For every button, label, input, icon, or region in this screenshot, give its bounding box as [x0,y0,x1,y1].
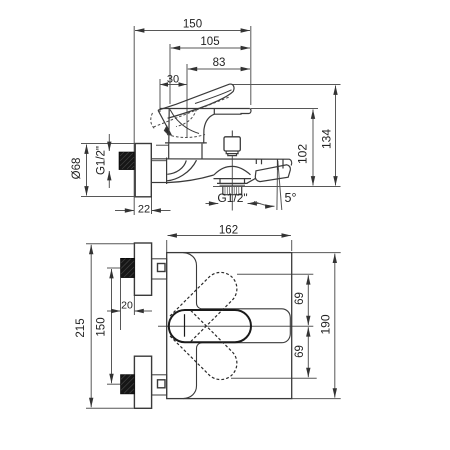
svg-text:G1/2": G1/2" [96,146,108,175]
svg-text:150: 150 [183,19,202,31]
svg-text:105: 105 [200,36,219,48]
svg-text:190: 190 [319,314,333,334]
svg-text:134: 134 [320,129,334,149]
svg-text:102: 102 [296,144,310,164]
svg-text:150: 150 [96,317,108,336]
svg-text:162: 162 [219,225,238,237]
svg-text:69: 69 [294,292,306,305]
svg-text:G1/2": G1/2" [217,191,247,205]
svg-text:30: 30 [167,74,179,86]
svg-text:22: 22 [138,204,150,216]
svg-text:83: 83 [213,57,226,69]
svg-text:20: 20 [121,300,133,312]
svg-text:Ø68: Ø68 [71,158,83,180]
svg-text:215: 215 [75,318,87,337]
svg-text:5°: 5° [285,191,297,205]
svg-text:69: 69 [294,345,306,358]
